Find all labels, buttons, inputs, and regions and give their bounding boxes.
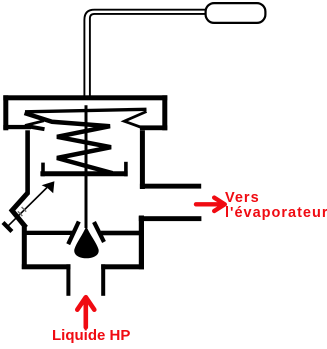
outlet red arrow (196, 198, 225, 211)
seat edge left (68, 222, 79, 245)
capillary tube outer line (84, 10, 206, 100)
spring chamber right wall (140, 130, 145, 189)
adjusting screw shaft (7, 188, 47, 227)
valve needle (74, 226, 98, 258)
bottom left shelf (22, 264, 71, 269)
bottom right shelf (101, 264, 144, 269)
inlet right wall (101, 264, 105, 296)
lower body left wall (22, 227, 27, 270)
valve cap bottom-right bar (140, 125, 167, 130)
diaphragm left wedge (25, 121, 44, 126)
valve cap left wall (3, 95, 8, 130)
valve cap bottom-left stub (29, 126, 45, 129)
outlet step wall (139, 216, 144, 270)
spring seat right tick (124, 162, 128, 177)
spring chamber left wall (25, 130, 30, 194)
valve cap top bar (3, 95, 167, 100)
spring seat plate (40, 171, 127, 176)
valve cap right wall (162, 95, 167, 130)
inlet red arrow (77, 297, 94, 327)
outlet bottom wall (139, 216, 202, 221)
spring seat left tick (41, 163, 45, 177)
screw arrowhead (42, 181, 55, 193)
label Vers l'evaporateur (225, 191, 327, 222)
push rod (85, 105, 88, 228)
screw shaft tick 2 (22, 207, 27, 212)
seat edge right (94, 222, 104, 242)
inlet left wall (66, 264, 70, 296)
spring (25, 113, 113, 173)
diaphragm main line (25, 109, 147, 112)
chamber floor left (26, 231, 73, 235)
adjusting screw head (3, 223, 12, 232)
capillary tube inner line (90, 14, 206, 100)
valve cap bottom-left bar (3, 125, 31, 129)
sensing bulb B1 (206, 3, 266, 23)
label Liquide HP (52, 327, 130, 344)
screw shaft tick 1 (18, 211, 23, 216)
outlet top wall (140, 184, 201, 189)
left wall screw notch (12, 193, 28, 228)
diaphragm right wedge (124, 112, 146, 129)
chamber floor right (101, 231, 140, 236)
